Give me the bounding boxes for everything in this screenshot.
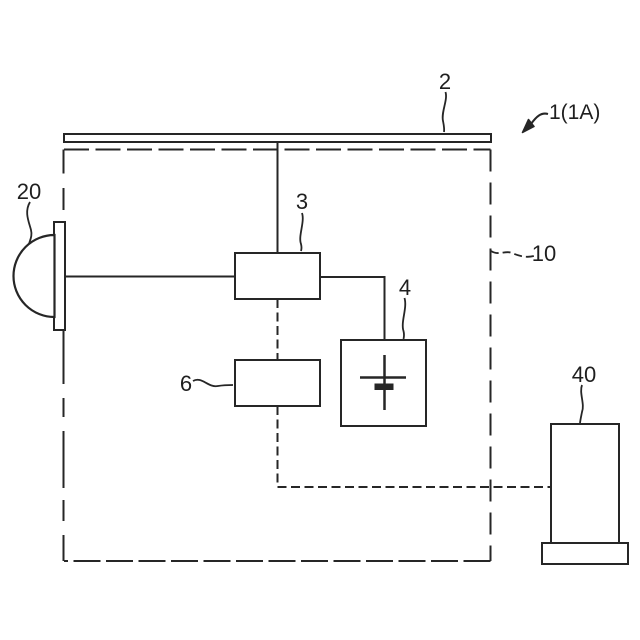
battery symbol xyxy=(360,355,406,410)
arrow for label 1(1A) xyxy=(531,114,548,124)
box 6 xyxy=(235,360,320,406)
svg-text:10: 10 xyxy=(532,241,556,266)
wire from panel 2 to box 3 xyxy=(277,143,279,253)
lens dome 20 xyxy=(13,235,54,317)
leader for label 2 xyxy=(443,92,446,132)
housing 10 dashed outline: top edge xyxy=(64,149,491,151)
housing 10 dashed outline: left edge (irregular dashes) xyxy=(63,150,65,562)
svg-text:4: 4 xyxy=(399,275,411,300)
controller box 3 xyxy=(235,253,320,299)
housing 10 dashed outline: bottom edge xyxy=(64,560,491,562)
leader for label 6 xyxy=(193,380,233,386)
svg-text:3: 3 xyxy=(296,189,308,214)
roof panel 2 xyxy=(64,134,491,142)
housing 10 dashed outline: right edge xyxy=(490,150,492,562)
svg-text:2: 2 xyxy=(439,69,451,94)
leader for label 3 xyxy=(300,213,303,251)
wire from box 3 to battery box 4 xyxy=(321,277,385,340)
device 40 body xyxy=(551,424,619,543)
svg-text:40: 40 xyxy=(572,362,596,387)
device 40 base xyxy=(542,543,628,564)
dashed wire from box 6 down and right to device 40 xyxy=(278,406,551,487)
battery box 4 xyxy=(341,340,426,426)
dashed leader for label 10 xyxy=(491,251,534,257)
svg-text:6: 6 xyxy=(180,371,192,396)
lens mount 20 xyxy=(54,222,65,330)
leader for label 20 xyxy=(27,202,31,244)
svg-text:1(1A): 1(1A) xyxy=(549,101,600,124)
leader for label 40 xyxy=(580,385,583,423)
svg-text:20: 20 xyxy=(17,179,41,204)
wire from lens 20 to box 3 xyxy=(65,276,235,278)
leader for label 4 xyxy=(403,298,406,339)
dashed wire from box 3 to box 6 xyxy=(277,299,279,360)
